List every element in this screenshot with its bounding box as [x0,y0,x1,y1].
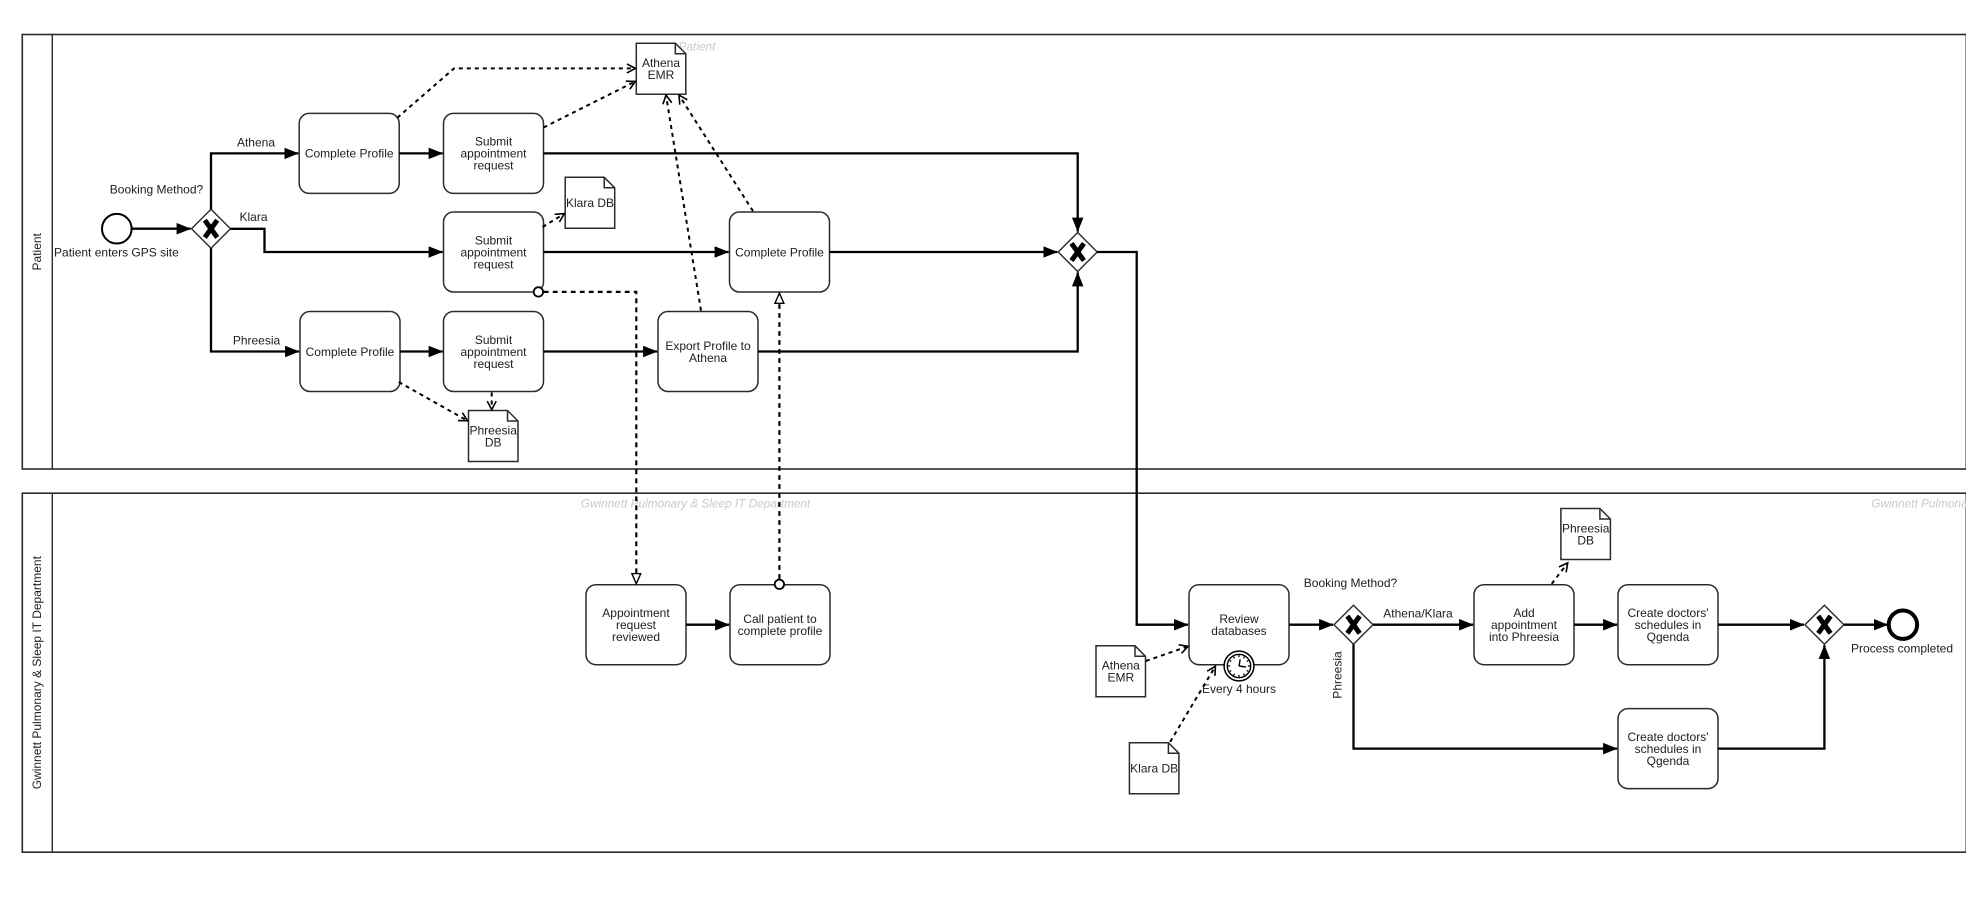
pool/lane: Patient [22,35,1966,470]
flow F5: G1 -> T3 (Klara) [231,229,443,252]
svg-text:Every 4 hours: Every 4 hours [1202,682,1276,696]
flow F15: G3 -> T11 (Athena/Klara) [1373,624,1473,626]
data object D3: Phreesia DB [469,411,519,462]
task T12: Create doctors schedules in Qgenda (top) [1618,585,1718,665]
svg-text:Call patient tocomplete profil: Call patient tocomplete profile [738,612,823,638]
association A1: T1 -> Athena EMR [397,68,635,117]
flow F9: T5 -> T6 [400,350,443,352]
association A7: T6 -> Phreesia DB [491,393,493,410]
svg-text:Phreesia: Phreesia [233,334,281,348]
flow F6: T3 -> T4 [544,251,729,253]
data object D1: Athena EMR [636,43,686,94]
association A6: T5 -> Phreesia DB [399,382,468,421]
gateway G1: Booking Method? (exclusive split) [192,209,231,248]
flow F1: start -> G1 [132,228,191,230]
flow F4: T2 -> G2 (top) [544,153,1078,231]
data object D2: Klara DB [565,177,615,228]
task T3: Submit appointment request (Klara) [444,212,544,292]
association A3: T7 -> Athena EMR [666,95,701,311]
message flow M1: T3 -> Appointment request reviewed [534,287,637,584]
svg-text:Booking Method?: Booking Method? [110,183,204,197]
svg-text:Booking Method?: Booking Method? [1304,576,1398,590]
data object D6: Phreesia DB (lane 2) [1561,509,1611,560]
flow F7: T4 -> G2 (left) [830,251,1058,253]
association A10: T11 -> Phreesia DB [1552,563,1568,584]
message flow M2: Call patient -> T4 [775,293,784,589]
flow F17: T11 -> T12 [1574,624,1617,626]
start event: Patient enters GPS site [102,214,132,244]
flow F12: G2 -> Review databases (lane 2) [1097,252,1188,625]
task T4: Complete Profile (Klara) [730,212,830,292]
pool/lane: Gwinnett Pulmonary & Sleep IT Department [22,493,1966,852]
association A5: T3 -> Klara DB [543,214,565,227]
data object D5: Klara DB (lane 2) [1129,743,1179,794]
association A8: Athena EMR -> T10 [1146,646,1188,661]
svg-text:Klara: Klara [239,210,267,224]
svg-text:Reviewdatabases: Reviewdatabases [1211,612,1266,638]
flow F14: T10 -> G3 [1289,624,1333,626]
flow F2: G1 -> T1 (Athena) [211,153,298,209]
data object D4: Athena EMR (lane 2) [1096,646,1146,697]
end event: Process completed [1889,611,1917,639]
flow F11: T7 -> G2 (bottom) [758,272,1078,351]
svg-text:Patient: Patient [30,232,44,270]
flow F20: G4 -> end event [1844,624,1888,626]
task T6: Submit appointment request (Phreesia) [444,312,544,392]
boundary timer event: Every 4 hours [1224,651,1254,681]
svg-text:Patient enters GPS site: Patient enters GPS site [54,246,179,260]
svg-text:Complete Profile: Complete Profile [306,345,395,359]
svg-text:Phreesia: Phreesia [1331,651,1345,699]
svg-text:Gwinnett Pulmonary & Sleep IT: Gwinnett Pulmonary & Sleep IT Department [30,555,44,789]
task T8: Appointment request reviewed [586,585,686,665]
flow F3: T1 -> T2 [399,152,442,154]
task T2: Submit appointment request (Athena) [444,113,544,193]
task T10: Review databases [1189,585,1289,665]
flow F10: T6 -> T7 [544,350,658,352]
svg-text:Klara DB: Klara DB [1130,762,1178,776]
task T13: Create doctors schedules in Qgenda (bottom) [1618,709,1718,789]
flow F13: T8 -> T9 [686,624,729,626]
gateway G3: Booking Method? (lane 2 split) [1334,605,1373,644]
flow F16: G3 -> T13 (Phreesia) [1354,644,1618,748]
task T9: Call patient to complete profile [730,585,830,665]
svg-text:Klara DB: Klara DB [566,196,614,210]
task T7: Export Profile to Athena [658,312,758,392]
task T5: Complete Profile (Phreesia) [300,312,400,392]
task T1: Complete Profile (Athena) [299,113,399,193]
association A4: T4 -> Athena EMR [679,95,753,211]
flow F18: T12 -> G4 [1718,624,1804,626]
svg-text:Complete Profile: Complete Profile [735,245,824,259]
svg-text:Athena: Athena [237,136,275,150]
svg-text:Process completed: Process completed [1851,641,1953,655]
gateway G4: merge before end [1805,605,1844,644]
association A9: Klara DB -> timer event [1170,666,1215,742]
svg-text:Athena/Klara: Athena/Klara [1383,607,1453,621]
svg-text:Gwinnett Pulmonary & Sleep IT: Gwinnett Pulmonary & Sleep IT Department [1871,496,1966,510]
flow F8: G1 -> T5 (Phreesia) [211,248,299,351]
svg-text:Gwinnett Pulmonary & Sleep IT: Gwinnett Pulmonary & Sleep IT Department [581,496,811,510]
flow F19: T13 -> G4 (bottom) [1718,645,1825,749]
svg-text:Complete Profile: Complete Profile [305,147,394,161]
association A2: T2 -> Athena EMR [544,81,636,127]
gateway G2: merge (exclusive join) [1058,233,1097,272]
task T11: Add appointment into Phreesia [1474,585,1574,665]
